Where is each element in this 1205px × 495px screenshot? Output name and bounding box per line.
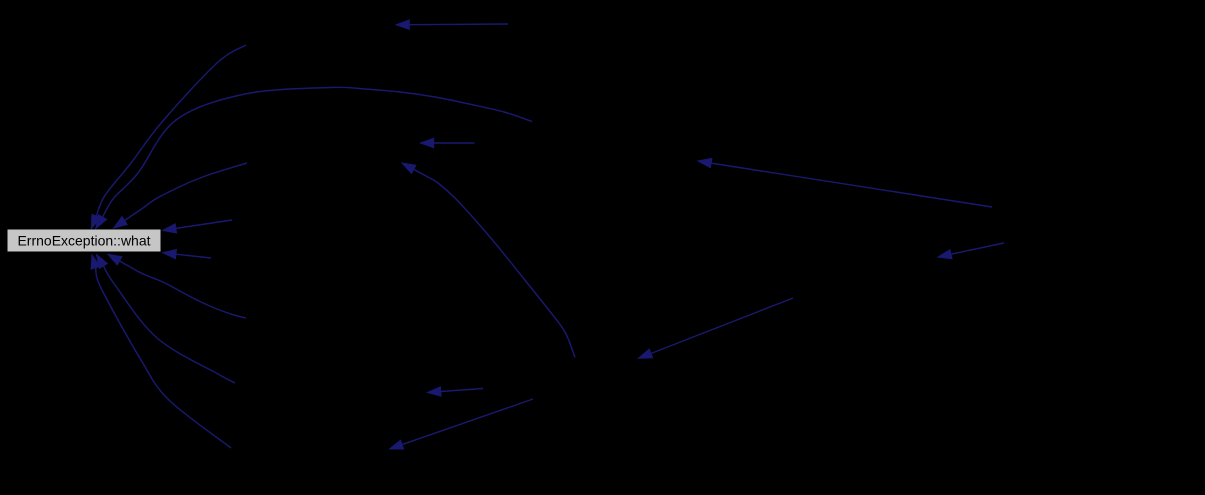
- edge horizontal arrow into row-2 node: [420, 138, 474, 147]
- edge top horizontal arrow between invisible top nodes: [396, 20, 508, 29]
- edge C2: row-5 caller into box bottom (right arrowhead of bottom pair): [97, 255, 236, 384]
- edge far-right caller into lower-right node: [938, 243, 1004, 259]
- edge C3: row-6 caller into box bottom (left arrowhead of bottom pair): [91, 255, 231, 448]
- edge long line from hub area into row-6 node: [390, 399, 534, 449]
- edge E2: upper caller into ErrnoException::what (right arrowhead of top pair): [96, 87, 532, 228]
- edge E1: top caller into ErrnoException::what (left arrowhead of top pair): [91, 45, 246, 229]
- edge short arrow into row-5 node east edge: [428, 387, 484, 396]
- edge from hub node up into row-2 node bottom edge: [402, 163, 575, 358]
- edge H3: short caller edge into box north-east corner: [163, 220, 232, 233]
- node box: ErrnoException::what (current function, grey fill): [8, 230, 161, 252]
- edge E3: row-2 caller into ErrnoException::what top (arrowhead B): [114, 163, 247, 228]
- edge C1: row-3 caller into box bottom (arrowhead D): [108, 254, 246, 318]
- svg-text:ErrnoException::what: ErrnoException::what: [17, 233, 150, 249]
- edge far-right caller into mid-right node: [698, 158, 992, 207]
- edge right caller into hub node east edge: [639, 298, 794, 358]
- edge H4: short caller edge into box east side lower: [163, 250, 211, 259]
